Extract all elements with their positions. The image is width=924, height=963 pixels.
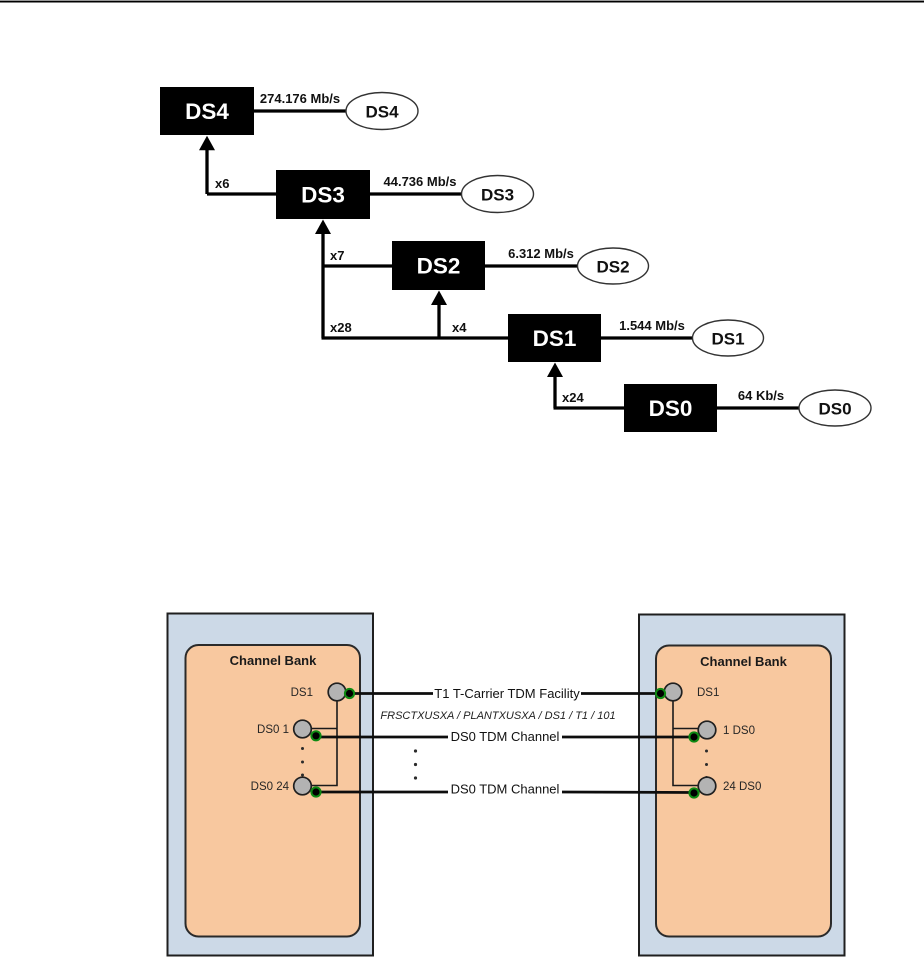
- top horizontal rule: [0, 1, 924, 3]
- node DS2 box: [392, 241, 485, 290]
- svg-text:x6: x6: [215, 176, 229, 191]
- svg-text:T1 T-Carrier TDM Facility: T1 T-Carrier TDM Facility: [434, 686, 580, 701]
- svg-text:274.176 Mb/s: 274.176 Mb/s: [260, 91, 340, 106]
- svg-text:DS1: DS1: [291, 687, 313, 699]
- node DS1 ellipse: [693, 320, 764, 356]
- svg-text:x24: x24: [562, 390, 584, 405]
- port DS1 (right): [664, 683, 719, 701]
- right channel bank inner box: [656, 646, 831, 937]
- wire trunk from DS3 bottom down to DS1 line: [315, 220, 331, 339]
- svg-text:DS2: DS2: [596, 258, 629, 277]
- svg-text:DS1: DS1: [533, 326, 577, 351]
- left channel bank outer box: [168, 614, 374, 956]
- wire DS3 box to DS3 ellipse: [370, 192, 462, 195]
- left channel bank inner box: [186, 645, 361, 937]
- junction dot 24 DS0 right: [688, 787, 699, 798]
- junction dot DS0 1 left: [310, 730, 321, 741]
- svg-text:44.736 Mb/s: 44.736 Mb/s: [384, 174, 457, 189]
- ellipsis dots middle: [414, 749, 417, 779]
- svg-text:DS4: DS4: [185, 99, 229, 124]
- junction dot DS0 24 left: [310, 786, 321, 797]
- svg-text:1.544 Mb/s: 1.544 Mb/s: [619, 318, 685, 333]
- svg-text:DS2: DS2: [417, 254, 461, 279]
- junction dot DS1 left: [344, 688, 355, 699]
- svg-text:1 DS0: 1 DS0: [723, 725, 755, 737]
- left internal mux wire: [312, 701, 338, 786]
- port 1 DS0 (right): [698, 721, 755, 739]
- svg-text:DS1: DS1: [697, 687, 719, 699]
- wire T1 T-Carrier TDM Facility: [350, 686, 661, 701]
- svg-text:DS1: DS1: [711, 330, 744, 349]
- wire DS2 box to DS2 ellipse: [485, 264, 578, 267]
- port 24 DS0 (right): [698, 777, 761, 795]
- svg-text:DS0 TDM Channel: DS0 TDM Channel: [451, 782, 560, 797]
- ellipsis dots right bank: [705, 750, 708, 780]
- svg-text:DS0 1: DS0 1: [257, 724, 289, 736]
- svg-text:DS0: DS0: [818, 400, 851, 419]
- wire DS0 TDM Channel (24): [316, 782, 694, 797]
- wire DS4 box to DS4 ellipse: [254, 109, 347, 112]
- svg-text:Channel Bank: Channel Bank: [700, 654, 787, 669]
- svg-text:FRSCTXUSXA / PLANTXUSXA / DS1: FRSCTXUSXA / PLANTXUSXA / DS1 / T1 / 101: [380, 710, 615, 722]
- port DS0 24 (left): [251, 777, 312, 795]
- node DS4 ellipse: [346, 93, 418, 130]
- wire DS1 box to DS1 ellipse: [601, 336, 693, 339]
- right channel bank outer box: [639, 615, 845, 956]
- svg-text:DS0 24: DS0 24: [251, 781, 290, 793]
- node DS0 ellipse: [799, 390, 871, 426]
- svg-text:64 Kb/s: 64 Kb/s: [738, 388, 784, 403]
- svg-text:DS0 TDM Channel: DS0 TDM Channel: [451, 729, 560, 744]
- svg-text:x4: x4: [452, 320, 467, 335]
- svg-text:6.312 Mb/s: 6.312 Mb/s: [508, 246, 574, 261]
- svg-text:DS4: DS4: [365, 103, 399, 122]
- right internal mux wire: [673, 701, 698, 786]
- wire x4 branch up to DS2: [431, 291, 447, 339]
- svg-text:x28: x28: [330, 320, 352, 335]
- node DS4 box: [160, 87, 254, 135]
- svg-text:DS0: DS0: [649, 396, 693, 421]
- wire x6 from DS3 level up to DS4: [199, 136, 276, 194]
- wire DS0 TDM Channel (1): [316, 729, 694, 744]
- node DS2 ellipse: [578, 248, 649, 284]
- wire DS0 box to DS0 ellipse: [717, 406, 799, 409]
- port DS0 1 (left): [257, 720, 311, 738]
- wire x28 horizontal into DS1: [322, 336, 509, 339]
- node DS3 ellipse: [462, 176, 534, 213]
- node DS1 box: [508, 314, 601, 362]
- svg-text:x7: x7: [330, 248, 344, 263]
- node DS0 box: [624, 384, 717, 432]
- port DS1 (left): [291, 683, 346, 701]
- ellipsis dots left bank: [301, 747, 304, 777]
- svg-text:DS3: DS3: [301, 183, 345, 208]
- svg-text:24 DS0: 24 DS0: [723, 781, 761, 793]
- wire x7 branch to DS2: [323, 264, 392, 267]
- node DS3 box: [276, 170, 370, 219]
- svg-text:Channel Bank: Channel Bank: [230, 653, 317, 668]
- junction dot DS1 right: [655, 688, 666, 699]
- svg-text:DS3: DS3: [481, 186, 514, 205]
- junction dot 1 DS0 right: [688, 731, 699, 742]
- wire x24 up from DS0 line to DS1: [547, 363, 624, 409]
